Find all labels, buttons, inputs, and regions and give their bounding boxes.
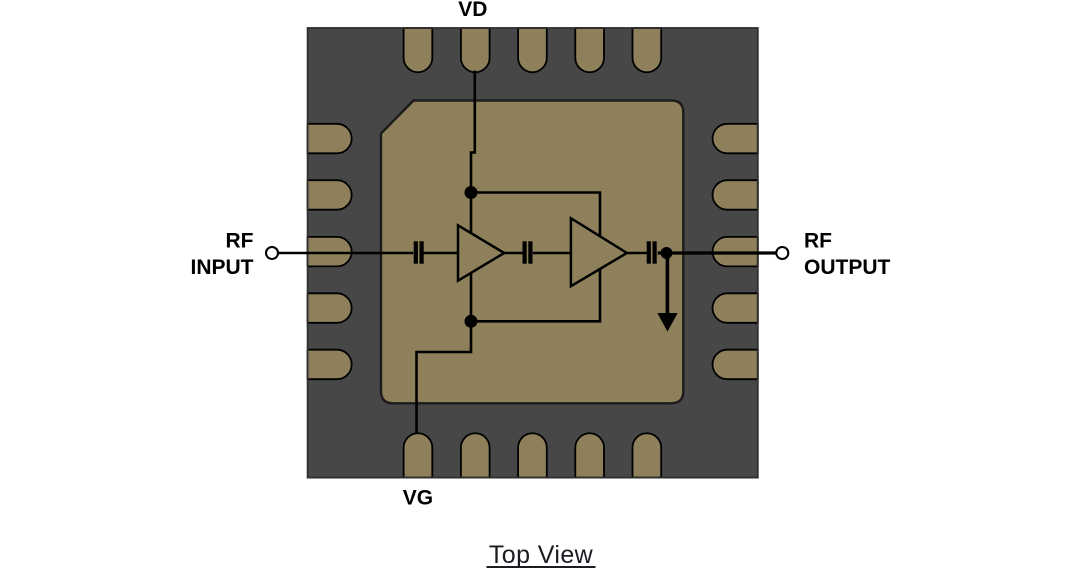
svg-text:INPUT: INPUT [191, 256, 254, 279]
svg-text:VD: VD [458, 0, 487, 21]
svg-text:Top View: Top View [489, 541, 594, 569]
svg-text:OUTPUT: OUTPUT [804, 256, 891, 279]
svg-text:RF: RF [804, 230, 832, 253]
svg-text:VG: VG [403, 486, 433, 509]
svg-text:RF: RF [226, 230, 254, 253]
